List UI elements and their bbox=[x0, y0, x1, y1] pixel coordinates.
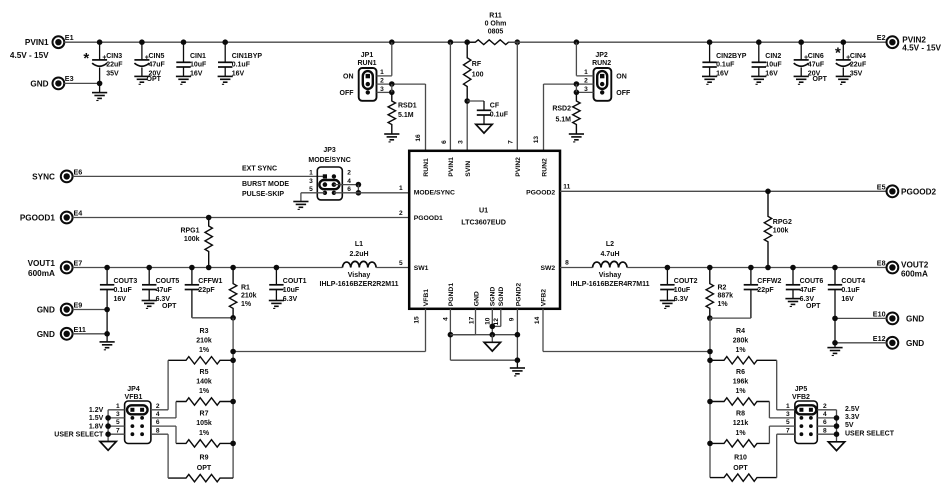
svg-text:GND: GND bbox=[906, 339, 924, 348]
svg-text:R6: R6 bbox=[736, 369, 745, 376]
svg-text:RUN1: RUN1 bbox=[423, 158, 430, 177]
wire E9 to COUT3 bottom bbox=[73, 309, 108, 311]
capacitor CIN1BYP bbox=[222, 39, 228, 45]
wire JP4 pin 4 stub bbox=[151, 417, 176, 419]
svg-text:VOUT2: VOUT2 bbox=[901, 261, 929, 270]
svg-text:MODE/SYNC: MODE/SYNC bbox=[414, 189, 455, 196]
svg-text:6.3V: 6.3V bbox=[674, 296, 689, 303]
svg-text:4.7uH: 4.7uH bbox=[600, 251, 619, 258]
svg-text:210k: 210k bbox=[196, 337, 212, 344]
ground below CIN1BYP bbox=[218, 75, 233, 77]
wire JP1 pin 2 to RUN1 bbox=[377, 83, 426, 85]
svg-text:COUT5: COUT5 bbox=[156, 278, 180, 285]
svg-text:4: 4 bbox=[443, 317, 450, 321]
junction JP1 pin3 node bbox=[389, 90, 395, 96]
wire SGND pin 12 bbox=[500, 309, 502, 327]
svg-text:47uF: 47uF bbox=[149, 62, 166, 69]
svg-text:PULSE-SKIP: PULSE-SKIP bbox=[242, 191, 284, 198]
terminal E11 GND bbox=[61, 328, 73, 340]
svg-text:5: 5 bbox=[786, 419, 790, 426]
resistor RF 100 bbox=[464, 42, 471, 101]
junction JP5 pin 8 node bbox=[834, 431, 840, 437]
wire JP5 pin 5 stub bbox=[769, 425, 795, 427]
wire JP5 ground bus bbox=[817, 409, 836, 411]
wire JP5 pin 3 stub bbox=[769, 417, 795, 419]
wire JP4 ground bus bbox=[108, 409, 125, 411]
wire PVIN2 pin 7 drop bbox=[516, 42, 518, 151]
junction SVIN branch bbox=[464, 39, 470, 45]
svg-text:16V: 16V bbox=[114, 296, 127, 303]
junction PGND1/GND node bbox=[448, 332, 454, 338]
svg-text:5.1M: 5.1M bbox=[555, 116, 571, 123]
svg-text:E11: E11 bbox=[74, 325, 86, 334]
svg-text:0 Ohm: 0 Ohm bbox=[485, 20, 507, 27]
svg-text:L1: L1 bbox=[355, 241, 363, 248]
wire RF bottom to SVIN pin 3 bbox=[466, 101, 468, 151]
terminal E10 GND bbox=[887, 313, 899, 325]
svg-text:7: 7 bbox=[508, 140, 515, 144]
svg-text:0.1uF: 0.1uF bbox=[841, 287, 860, 294]
junction E11 node bbox=[104, 331, 110, 337]
ground below COUT5 bbox=[142, 300, 157, 302]
wire JP5 pin 1 stub bbox=[777, 409, 795, 411]
capacitor CIN3 bbox=[97, 39, 103, 45]
svg-text:1%: 1% bbox=[199, 388, 210, 395]
svg-text:1%: 1% bbox=[718, 301, 729, 308]
svg-text:Vishay: Vishay bbox=[348, 272, 371, 279]
wire top rail to JP2 pin 1 bbox=[574, 39, 580, 45]
wire JP4 pin 6 stub bbox=[151, 425, 176, 427]
svg-text:U1: U1 bbox=[479, 205, 488, 214]
junction RPG2 top bbox=[765, 189, 771, 195]
svg-text:OPT: OPT bbox=[806, 303, 821, 310]
svg-text:8: 8 bbox=[823, 427, 827, 434]
wire JP4 pin 8 stub bbox=[151, 433, 168, 435]
svg-text:*: * bbox=[83, 50, 89, 67]
inductor L1 2.2uH bbox=[342, 261, 376, 267]
wire JP1 pin 3 bbox=[377, 91, 392, 93]
capacitor CIN4 bbox=[841, 39, 847, 45]
svg-text:CIN3: CIN3 bbox=[106, 53, 122, 60]
terminal E5 PGOOD2 bbox=[887, 185, 899, 197]
resistor RPG1 100k bbox=[205, 218, 212, 268]
wire R9 to JP4 pin 8 bbox=[167, 434, 169, 478]
junction RPG1 top bbox=[206, 215, 212, 221]
svg-text:2: 2 bbox=[347, 170, 351, 177]
svg-text:1%: 1% bbox=[735, 347, 746, 354]
junction E9 node bbox=[104, 307, 110, 313]
svg-text:E3: E3 bbox=[65, 74, 74, 83]
wire SW2 to L2 bbox=[560, 267, 593, 269]
wire CFFW2 bottom to R2 bottom bbox=[710, 317, 751, 319]
wire JP3 pin 5 to ground bbox=[301, 192, 325, 194]
signal ground below CF bbox=[476, 124, 492, 133]
junction RPG2 bottom bbox=[765, 265, 771, 271]
svg-text:SW2: SW2 bbox=[540, 265, 555, 272]
terminal E7 VOUT1 bbox=[61, 262, 73, 274]
wire JP5 pin 7 stub bbox=[777, 433, 795, 435]
svg-text:1: 1 bbox=[309, 170, 313, 177]
svg-text:MODE/SYNC: MODE/SYNC bbox=[308, 157, 350, 164]
terminal E9 GND bbox=[61, 304, 73, 316]
ground below CIN2 bbox=[751, 75, 766, 77]
svg-text:CIN2: CIN2 bbox=[765, 53, 781, 60]
wire VOUT1 rail bbox=[73, 267, 343, 269]
svg-text:10uF: 10uF bbox=[765, 62, 782, 69]
svg-text:47uF: 47uF bbox=[156, 287, 173, 294]
junction VFB1 wire tap bbox=[230, 349, 236, 355]
svg-text:COUT3: COUT3 bbox=[114, 278, 138, 285]
svg-text:EXT SYNC: EXT SYNC bbox=[242, 166, 277, 173]
svg-text:140k: 140k bbox=[196, 379, 212, 386]
svg-text:CIN5: CIN5 bbox=[149, 53, 165, 60]
capacitor CIN2 bbox=[756, 39, 762, 45]
svg-text:2.2uH: 2.2uH bbox=[349, 251, 368, 258]
svg-text:0.1uF: 0.1uF bbox=[114, 287, 133, 294]
resistor R9 OPT bbox=[168, 474, 233, 481]
terminal E8 VOUT2 bbox=[887, 262, 899, 274]
wire R3 to JP4 pin 2 bbox=[167, 360, 169, 410]
svg-text:9: 9 bbox=[508, 317, 515, 321]
ground below CIN5 bbox=[134, 75, 149, 77]
svg-text:PGOOD2: PGOOD2 bbox=[901, 187, 936, 196]
wire MODE/SYNC to U1 pin 1 bbox=[334, 192, 409, 194]
junction PVIN2 branch bbox=[515, 39, 521, 45]
wire PGOOD1 rail bbox=[73, 217, 410, 219]
svg-text:GND: GND bbox=[30, 79, 48, 88]
wire JP2 pin 2 to RUN2 bbox=[544, 83, 594, 85]
resistor R1 210k bbox=[230, 265, 236, 271]
svg-text:PGOOD1: PGOOD1 bbox=[414, 215, 443, 222]
resistor R6 196k bbox=[710, 398, 769, 405]
svg-text:R10: R10 bbox=[734, 455, 747, 462]
junction JP4 pin 5 node bbox=[105, 423, 111, 429]
svg-text:E12: E12 bbox=[873, 334, 886, 343]
svg-text:RF: RF bbox=[472, 61, 482, 68]
junction RPG1 bottom bbox=[206, 265, 212, 271]
svg-text:OPT: OPT bbox=[813, 76, 828, 83]
svg-text:3: 3 bbox=[309, 178, 313, 185]
svg-text:0.1uF: 0.1uF bbox=[716, 62, 735, 69]
svg-text:1%: 1% bbox=[241, 301, 252, 308]
svg-text:USER SELECT: USER SELECT bbox=[845, 430, 895, 437]
junction R4 left bbox=[707, 358, 713, 364]
svg-text:IHLP-1616BZER4R7M11: IHLP-1616BZER4R7M11 bbox=[571, 281, 650, 288]
wire L2 to VOUT2 rail bbox=[627, 267, 887, 269]
svg-text:E7: E7 bbox=[74, 259, 83, 268]
svg-text:SGND: SGND bbox=[498, 287, 505, 307]
svg-text:10: 10 bbox=[484, 317, 491, 325]
svg-text:E1: E1 bbox=[65, 33, 74, 42]
svg-text:6: 6 bbox=[441, 140, 448, 144]
wire PVIN1 pin 6 drop bbox=[448, 39, 454, 45]
junction E12 node bbox=[832, 340, 838, 346]
svg-text:3: 3 bbox=[116, 411, 120, 418]
signal ground below JP5 bbox=[828, 442, 844, 451]
svg-text:SYNC: SYNC bbox=[32, 172, 55, 181]
svg-text:ON: ON bbox=[343, 73, 354, 80]
terminal E12 GND bbox=[887, 337, 899, 349]
wire E10 to COUT4 bottom bbox=[835, 317, 887, 319]
svg-text:VOUT1: VOUT1 bbox=[28, 259, 56, 268]
svg-text:100k: 100k bbox=[773, 227, 789, 234]
svg-text:R4: R4 bbox=[736, 328, 745, 335]
svg-text:VFB2: VFB2 bbox=[792, 394, 810, 401]
capacitor CIN1 bbox=[181, 39, 187, 45]
svg-text:14: 14 bbox=[534, 316, 541, 324]
resistor R4 280k bbox=[710, 357, 777, 364]
svg-text:JP2: JP2 bbox=[595, 52, 608, 59]
wire R7 to JP4 pin 6 bbox=[175, 426, 177, 443]
svg-text:BURST MODE: BURST MODE bbox=[242, 181, 289, 188]
junction VFB2 wire tap bbox=[707, 349, 713, 355]
svg-text:JP5: JP5 bbox=[795, 386, 808, 393]
svg-text:16V: 16V bbox=[765, 70, 778, 77]
svg-text:Vishay: Vishay bbox=[599, 272, 622, 279]
svg-text:CF: CF bbox=[490, 103, 500, 110]
ground below CIN2BYP bbox=[702, 75, 717, 77]
svg-text:PVIN1: PVIN1 bbox=[448, 157, 455, 177]
junction VFB2 divider top bbox=[707, 315, 713, 321]
junction R6 left bbox=[707, 399, 713, 405]
svg-text:3: 3 bbox=[457, 140, 464, 144]
wire JP2 pin 3 bbox=[576, 91, 593, 93]
resistor RPG2 100k bbox=[764, 191, 771, 267]
svg-text:13: 13 bbox=[533, 136, 540, 144]
svg-text:IHLP-1616BZER2R2M11: IHLP-1616BZER2R2M11 bbox=[320, 281, 399, 288]
svg-text:E8: E8 bbox=[877, 259, 886, 268]
ground below RSD2 bbox=[569, 133, 584, 135]
svg-text:CIN1BYP: CIN1BYP bbox=[232, 53, 263, 60]
svg-text:PGOOD2: PGOOD2 bbox=[526, 189, 555, 196]
svg-text:196k: 196k bbox=[733, 379, 749, 386]
svg-text:E9: E9 bbox=[74, 301, 83, 310]
resistor R5 140k bbox=[176, 398, 233, 405]
svg-text:22uF: 22uF bbox=[106, 62, 123, 69]
svg-text:COUT1: COUT1 bbox=[283, 278, 307, 285]
capacitor CIN6 bbox=[798, 39, 804, 45]
svg-text:121k: 121k bbox=[733, 420, 749, 427]
capacitor COUT2 bbox=[665, 265, 671, 271]
junction JP2 pin3 node bbox=[574, 90, 580, 96]
svg-text:16V: 16V bbox=[716, 70, 729, 77]
terminal E6 SYNC bbox=[61, 171, 73, 183]
capacitor COUT3 bbox=[104, 265, 110, 271]
resistor R3 210k bbox=[168, 357, 233, 364]
svg-text:6.3V: 6.3V bbox=[283, 296, 298, 303]
svg-text:CIN1: CIN1 bbox=[190, 53, 206, 60]
wire E12 to ground node bbox=[835, 342, 887, 344]
ground below JP3 pin 5 bbox=[293, 201, 308, 203]
wire R8 to JP5 pin 5 bbox=[768, 426, 770, 443]
wire R10 to JP5 pin 7 bbox=[776, 434, 778, 477]
svg-text:22pF: 22pF bbox=[757, 287, 774, 294]
svg-text:GND: GND bbox=[37, 306, 55, 315]
svg-text:E10: E10 bbox=[873, 309, 886, 318]
svg-text:0.1uF: 0.1uF bbox=[232, 62, 251, 69]
svg-text:R5: R5 bbox=[200, 369, 209, 376]
svg-text:RPG1: RPG1 bbox=[180, 228, 199, 235]
capacitor COUT5 bbox=[146, 265, 152, 271]
svg-text:7: 7 bbox=[116, 427, 120, 434]
svg-text:VFB2: VFB2 bbox=[541, 289, 548, 307]
svg-text:R8: R8 bbox=[736, 411, 745, 418]
svg-text:GND: GND bbox=[906, 315, 924, 324]
svg-text:CIN6: CIN6 bbox=[808, 53, 824, 60]
resistor R8 121k bbox=[710, 440, 769, 447]
wire VFB1 pin 15 bbox=[425, 309, 427, 352]
svg-text:5: 5 bbox=[116, 419, 120, 426]
svg-text:5: 5 bbox=[309, 186, 313, 193]
svg-text:PGND2: PGND2 bbox=[516, 283, 523, 307]
resistor R10 OPT bbox=[710, 474, 777, 481]
svg-text:RPG2: RPG2 bbox=[773, 219, 792, 226]
junction R8 left bbox=[707, 441, 713, 447]
svg-text:5: 5 bbox=[399, 260, 403, 267]
svg-text:JP1: JP1 bbox=[361, 52, 374, 59]
svg-text:1%: 1% bbox=[199, 430, 210, 437]
ground below COUT6 bbox=[785, 298, 800, 300]
svg-text:17: 17 bbox=[469, 316, 476, 324]
svg-text:887k: 887k bbox=[718, 293, 734, 300]
svg-text:100k: 100k bbox=[184, 236, 200, 243]
svg-text:4: 4 bbox=[823, 411, 827, 418]
svg-text:3: 3 bbox=[786, 411, 790, 418]
svg-text:1%: 1% bbox=[735, 430, 746, 437]
wire PVIN1 rail left section bbox=[64, 41, 475, 43]
svg-text:PVIN1: PVIN1 bbox=[25, 38, 49, 47]
wire SGND pin 10 bbox=[491, 309, 493, 335]
ground below COUT4/E12 bbox=[834, 343, 836, 348]
svg-text:PGOOD1: PGOOD1 bbox=[20, 214, 55, 223]
svg-text:0.1uF: 0.1uF bbox=[490, 111, 509, 118]
svg-text:OPT: OPT bbox=[733, 465, 748, 472]
svg-text:R2: R2 bbox=[718, 284, 727, 291]
svg-text:6: 6 bbox=[156, 419, 160, 426]
svg-text:SW1: SW1 bbox=[414, 265, 429, 272]
svg-text:E6: E6 bbox=[74, 167, 83, 176]
wire PVIN1 rail right section bbox=[509, 41, 887, 43]
svg-text:GND: GND bbox=[37, 330, 55, 339]
ground below CIN6 bbox=[794, 75, 809, 77]
svg-text:RUN2: RUN2 bbox=[541, 158, 548, 177]
svg-text:CIN4: CIN4 bbox=[850, 53, 866, 60]
svg-text:R3: R3 bbox=[200, 328, 209, 335]
svg-text:JP3: JP3 bbox=[323, 147, 336, 154]
svg-text:PGND1: PGND1 bbox=[448, 283, 455, 307]
wire E3 to CIN3 bottom bbox=[64, 82, 99, 84]
junction R7 right bbox=[230, 441, 236, 447]
wire E11 to ground node bbox=[73, 333, 108, 335]
svg-text:2.5V: 2.5V bbox=[845, 406, 860, 413]
svg-text:2: 2 bbox=[399, 210, 403, 217]
resistor R2 887k bbox=[707, 265, 713, 271]
junction JP1 pin2 node bbox=[389, 81, 395, 87]
svg-text:10uF: 10uF bbox=[283, 287, 300, 294]
svg-text:LTC3607EUD: LTC3607EUD bbox=[461, 217, 506, 226]
junction PGND ground node bbox=[515, 357, 521, 363]
wire JP3 pin 4 stub bbox=[334, 184, 359, 186]
svg-text:5.1M: 5.1M bbox=[398, 112, 414, 119]
svg-text:CFFW1: CFFW1 bbox=[198, 278, 222, 285]
wire PGND bottom bus bbox=[450, 359, 517, 361]
svg-text:E5: E5 bbox=[877, 182, 886, 191]
svg-text:1.2V: 1.2V bbox=[89, 407, 104, 414]
op-amp U1 LTC3607EUD bbox=[409, 151, 560, 309]
wire VFB2 ladder bus bbox=[709, 318, 711, 478]
svg-text:22pF: 22pF bbox=[198, 287, 215, 294]
svg-text:105k: 105k bbox=[196, 420, 212, 427]
svg-text:OPT: OPT bbox=[197, 465, 212, 472]
svg-text:15: 15 bbox=[414, 316, 421, 324]
svg-text:47uF: 47uF bbox=[808, 62, 825, 69]
wire JP4 pin 2 stub bbox=[151, 409, 168, 411]
svg-text:35V: 35V bbox=[850, 70, 863, 77]
wire PGND bus bbox=[450, 334, 517, 336]
svg-text:1: 1 bbox=[584, 69, 588, 76]
resistor R11 0 Ohm bbox=[467, 40, 517, 45]
svg-text:RSD2: RSD2 bbox=[552, 105, 571, 112]
svg-text:1: 1 bbox=[116, 403, 120, 410]
svg-text:E4: E4 bbox=[74, 209, 83, 218]
svg-text:4.5V - 15V: 4.5V - 15V bbox=[10, 51, 49, 60]
svg-text:R7: R7 bbox=[200, 411, 209, 418]
junction PGND2 node bbox=[515, 332, 521, 338]
wire VFB1 ladder bus bbox=[232, 318, 234, 478]
svg-text:*: * bbox=[835, 45, 841, 62]
svg-text:6: 6 bbox=[823, 419, 827, 426]
svg-text:10uF: 10uF bbox=[674, 287, 691, 294]
junction JP3 pin6 node bbox=[356, 190, 362, 196]
wire R4 to JP5 pin 1 bbox=[776, 360, 778, 410]
junction JP4 pin 3 node bbox=[105, 415, 111, 421]
svg-text:1%: 1% bbox=[199, 347, 210, 354]
terminal E2 PVIN2 bbox=[887, 36, 899, 48]
svg-text:COUT6: COUT6 bbox=[800, 278, 824, 285]
wire JP1 pin2-pin3 tie bbox=[391, 84, 393, 92]
junction JP5 pin 6 node bbox=[834, 423, 840, 429]
svg-text:5V: 5V bbox=[845, 422, 854, 429]
wire PGND1 pin 4 bbox=[449, 309, 451, 360]
svg-text:22uF: 22uF bbox=[850, 62, 867, 69]
wire PGOOD2 rail bbox=[560, 190, 887, 192]
capacitor CFFW2 22pF bbox=[748, 265, 754, 271]
svg-text:RUN2: RUN2 bbox=[592, 60, 611, 67]
svg-text:4: 4 bbox=[347, 178, 351, 185]
svg-text:16V: 16V bbox=[841, 296, 854, 303]
capacitor COUT6 bbox=[790, 265, 796, 271]
wire GND pin 17 bbox=[475, 309, 477, 335]
capacitor CIN2BYP bbox=[707, 39, 713, 45]
junction JP5 pin 4 node bbox=[834, 415, 840, 421]
ground below COUT1 bbox=[269, 300, 284, 302]
svg-text:47uF: 47uF bbox=[800, 287, 817, 294]
svg-text:1: 1 bbox=[380, 69, 384, 76]
svg-text:1: 1 bbox=[786, 403, 790, 410]
svg-text:JP4: JP4 bbox=[127, 386, 140, 393]
svg-text:2: 2 bbox=[156, 403, 160, 410]
svg-text:1: 1 bbox=[399, 185, 403, 192]
svg-text:280k: 280k bbox=[733, 337, 749, 344]
svg-text:USER SELECT: USER SELECT bbox=[54, 431, 104, 438]
svg-text:VFB1: VFB1 bbox=[423, 289, 430, 307]
svg-text:OFF: OFF bbox=[340, 90, 355, 97]
svg-text:1.5V: 1.5V bbox=[89, 415, 104, 422]
svg-text:E2: E2 bbox=[877, 33, 886, 42]
terminal E3 GND bbox=[53, 78, 65, 90]
ground below RSD1 bbox=[384, 133, 399, 135]
terminal E1 PVIN1 bbox=[53, 36, 65, 48]
